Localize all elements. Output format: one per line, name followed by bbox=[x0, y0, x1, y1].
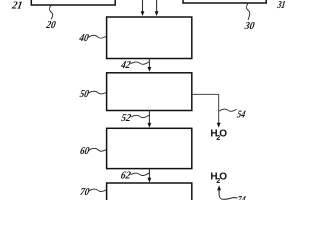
label 50 bbox=[79, 88, 90, 100]
leader squiggle for 20 bbox=[49, 5, 52, 19]
label 21 bbox=[10, 0, 23, 11]
label 30 bbox=[243, 20, 256, 32]
box 30 (top-right, cut off at top) bbox=[183, 0, 266, 3]
label 40 bbox=[78, 32, 91, 44]
label 20 bbox=[45, 19, 58, 31]
leader squiggle for 50 bbox=[89, 91, 107, 94]
label 74 (cut off at bottom) bbox=[236, 194, 247, 206]
leader squiggle for 54 bbox=[219, 109, 237, 111]
leader squiggle for 70 bbox=[89, 189, 106, 191]
leader squiggle for 52 bbox=[131, 115, 149, 117]
leader squiggle for 40 bbox=[89, 35, 107, 38]
feed arrow B into box 40 bbox=[155, 0, 159, 16]
leader squiggle for 60 bbox=[89, 148, 107, 151]
label 52 bbox=[120, 112, 132, 124]
box 20 (top-left, cut off at top) bbox=[31, 0, 115, 5]
box 60 bbox=[107, 128, 192, 168]
arrow 52 (box 50 to box 60) bbox=[148, 111, 152, 128]
label 31 bbox=[276, 0, 287, 11]
water branch line 54 from box 50 bbox=[192, 94, 221, 127]
label 62 bbox=[120, 170, 132, 182]
arrow 62 (box 60 to box 70) bbox=[148, 169, 152, 183]
leader squiggle for 30 bbox=[246, 4, 249, 20]
label 42 bbox=[119, 59, 132, 71]
water input arrow 74 (points up at H2O) bbox=[217, 185, 237, 199]
label 60 bbox=[79, 145, 91, 157]
arrow 42 (box 40 to box 50) bbox=[148, 59, 152, 72]
svg-text:74: 74 bbox=[236, 194, 247, 200]
feed arrow A into box 40 bbox=[141, 0, 145, 16]
label 70 bbox=[79, 186, 91, 198]
label 54 bbox=[236, 109, 247, 121]
box 70 (cut off at bottom) bbox=[107, 183, 192, 210]
box 50 bbox=[107, 73, 192, 111]
box 40 bbox=[107, 17, 192, 59]
leader squiggle for 42 bbox=[131, 62, 149, 64]
svg-text:21: 21 bbox=[10, 0, 23, 11]
leader squiggle for 62 bbox=[131, 173, 149, 175]
